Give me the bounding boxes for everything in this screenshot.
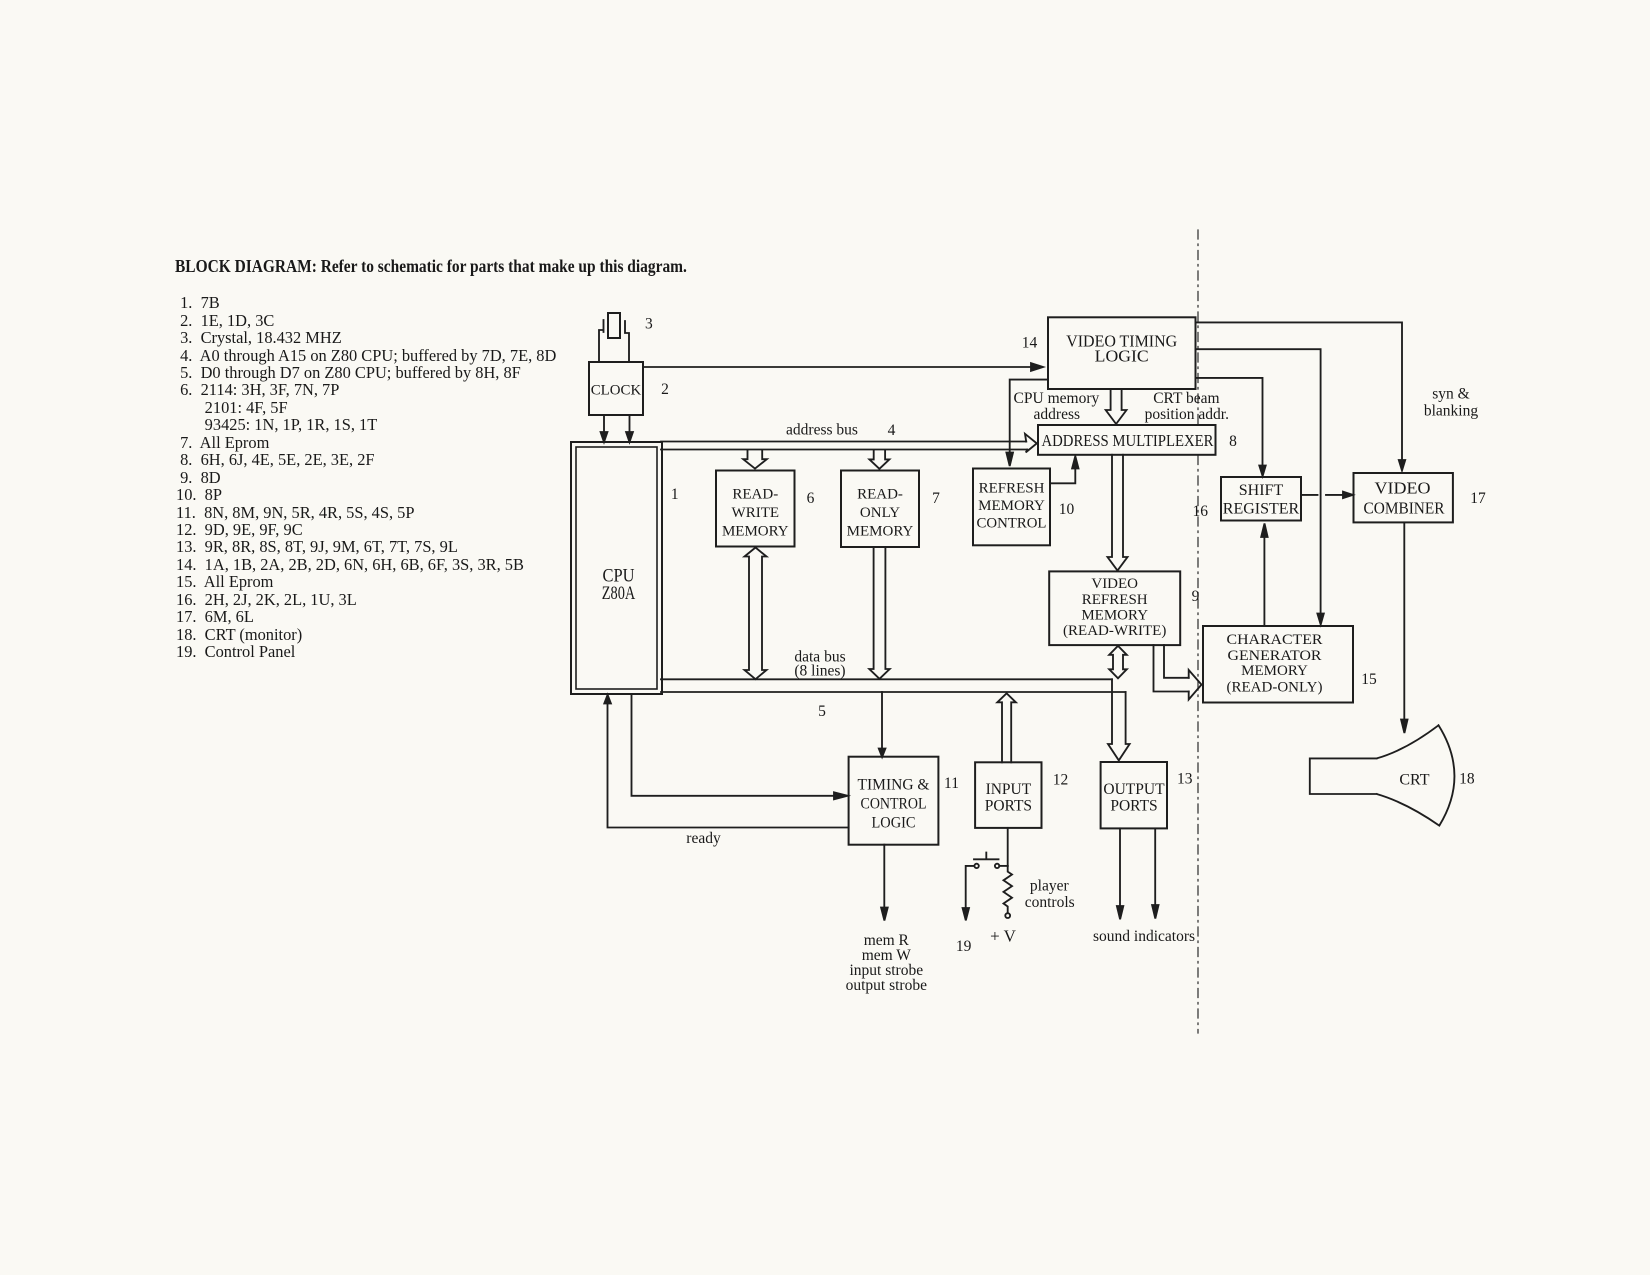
svg-text:19: 19 xyxy=(956,938,972,955)
wire: switch to control panel (19) xyxy=(963,866,975,921)
svg-text:LOGIC: LOGIC xyxy=(1095,347,1149,366)
svg-text:17: 17 xyxy=(1470,490,1486,507)
svg-text:VIDEO: VIDEO xyxy=(1375,479,1431,498)
wire: character generator memory up to shift register xyxy=(1261,524,1267,627)
svg-text:address: address xyxy=(1034,406,1081,423)
svg-text:CLOCK: CLOCK xyxy=(591,383,642,399)
svg-text:TIMING &: TIMING & xyxy=(858,777,930,794)
fold mark: vertical dash-dot line xyxy=(1197,230,1199,1033)
block VIDEO COMBINER (item 17) xyxy=(1354,473,1453,522)
svg-text:position addr.: position addr. xyxy=(1145,406,1229,423)
svg-text:ready: ready xyxy=(686,830,721,847)
wire: refresh memory control up to address multiplexer xyxy=(1050,456,1079,483)
svg-text:(READ-ONLY): (READ-ONLY) xyxy=(1227,679,1323,695)
bus: read-write memory to/from data bus (two-way open arrow) xyxy=(745,548,767,680)
svg-text:15: 15 xyxy=(1361,671,1377,688)
svg-text:10: 10 xyxy=(1059,501,1075,518)
svg-text:syn &: syn & xyxy=(1432,386,1469,403)
block REFRESH MEMORY CONTROL (item 10) xyxy=(973,469,1050,546)
svg-text:CONTROL: CONTROL xyxy=(977,516,1047,532)
svg-text:MEMORY: MEMORY xyxy=(847,523,914,539)
svg-text:MEMORY: MEMORY xyxy=(1081,608,1148,624)
svg-text:13: 13 xyxy=(1177,771,1193,788)
title xyxy=(175,256,687,277)
svg-text:7: 7 xyxy=(932,490,940,507)
svg-text:Z80A: Z80A xyxy=(602,583,636,604)
svg-text:REFRESH: REFRESH xyxy=(1082,592,1148,608)
block INPUT PORTS (item 12) xyxy=(975,762,1041,828)
block READ-WRITE MEMORY (item 6) xyxy=(716,471,795,547)
CRT monitor (item 18) xyxy=(1310,725,1455,825)
svg-text:LOGIC: LOGIC xyxy=(872,815,916,832)
block TIMING & CONTROL LOGIC (item 11) xyxy=(849,757,939,845)
bus branch: address bus down into read-write memory xyxy=(743,450,767,468)
svg-text:VIDEO: VIDEO xyxy=(1091,576,1138,592)
switch: player pushbutton (item 19) xyxy=(974,853,1008,869)
svg-text:controls: controls xyxy=(1025,894,1075,911)
bus: video refresh memory to/from data bus (two-way open arrow) xyxy=(1109,646,1127,679)
svg-text:9: 9 xyxy=(1192,588,1200,605)
wire: CPU memory address from video timing logic down to refresh memory control xyxy=(1006,380,1047,466)
svg-text:blanking: blanking xyxy=(1424,403,1478,420)
svg-text:REFRESH: REFRESH xyxy=(979,481,1045,497)
svg-text:ONLY: ONLY xyxy=(860,505,900,521)
wire: timing and control logic outputs (mem R, mem W, strobes) xyxy=(881,845,888,921)
svg-text:11: 11 xyxy=(944,775,959,792)
resistor: player controls pull-up to +V xyxy=(1004,866,1013,918)
svg-text:+ V: + V xyxy=(990,927,1017,946)
wire clock to cpu (left clock phase) xyxy=(601,415,608,442)
svg-text:CONTROL: CONTROL xyxy=(861,796,927,813)
bus: input ports up to data bus (open arrow) xyxy=(997,693,1016,762)
svg-text:CHARACTER: CHARACTER xyxy=(1227,632,1323,648)
wire clock to cpu (right clock phase) xyxy=(626,415,633,442)
svg-text:6: 6 xyxy=(807,490,815,507)
wire: video timing logic to character generator memory xyxy=(1196,349,1324,624)
block CHARACTER GENERATOR MEMORY (item 15) xyxy=(1203,626,1353,703)
svg-text:12: 12 xyxy=(1053,772,1069,789)
svg-text:ADDRESS MULTIPLEXER: ADDRESS MULTIPLEXER xyxy=(1042,431,1215,450)
wire: video combiner down to CRT xyxy=(1401,522,1407,733)
svg-text:MEMORY: MEMORY xyxy=(722,523,789,539)
bus branch: address bus down into read-only memory xyxy=(869,450,889,469)
block READ-ONLY MEMORY (item 7) xyxy=(841,471,919,548)
bus: video refresh memory to character generator memory (open arrow right) xyxy=(1154,645,1202,699)
bus: address multiplexer down to video refresh memory (open arrow) xyxy=(1108,455,1128,571)
svg-text:8: 8 xyxy=(1229,433,1237,450)
wire: output ports sound line 1 xyxy=(1117,828,1123,919)
svg-text:CPU memory: CPU memory xyxy=(1014,390,1100,407)
svg-text:GENERATOR: GENERATOR xyxy=(1228,648,1322,664)
block ADDRESS MULTIPLEXER (item 8) xyxy=(1038,425,1216,455)
wire: video timing logic to video combiner (syn and blanking) xyxy=(1196,322,1406,470)
svg-text:2: 2 xyxy=(661,381,669,398)
svg-text:address bus: address bus xyxy=(786,422,858,439)
crystal Y1 (item 3) xyxy=(599,313,629,362)
bus: address bus (item 4) from CPU to address multiplexer xyxy=(661,434,1037,453)
svg-text:CRT: CRT xyxy=(1399,772,1429,789)
svg-text:PORTS: PORTS xyxy=(985,798,1032,815)
svg-text:SHIFT: SHIFT xyxy=(1239,482,1284,499)
svg-text:18: 18 xyxy=(1459,771,1475,788)
svg-text:14: 14 xyxy=(1022,335,1038,352)
bus: read-only memory to data bus (down open arrow) xyxy=(869,548,889,679)
svg-text:MEMORY: MEMORY xyxy=(978,498,1045,514)
block CLOCK (item 2) xyxy=(589,362,643,415)
wire: shift register to video combiner xyxy=(1301,492,1353,498)
svg-text:MEMORY: MEMORY xyxy=(1241,663,1308,679)
svg-text:(8 lines): (8 lines) xyxy=(794,663,845,680)
svg-text:player: player xyxy=(1030,878,1070,895)
svg-text:WRITE: WRITE xyxy=(732,505,779,521)
wire: CPU down to timing and control logic xyxy=(632,694,848,799)
block CPU Z80A (item 1) xyxy=(571,442,662,694)
block VIDEO REFRESH MEMORY (item 9) xyxy=(1049,571,1180,645)
block VIDEO TIMING LOGIC (item 14) xyxy=(1048,317,1196,389)
wire: video timing logic to shift register xyxy=(1196,378,1266,476)
svg-text:REGISTER: REGISTER xyxy=(1223,500,1300,517)
parts list xyxy=(176,294,556,660)
svg-text:3: 3 xyxy=(645,316,653,333)
svg-text:sound indicators: sound indicators xyxy=(1093,928,1195,945)
svg-text:4: 4 xyxy=(888,422,896,439)
svg-text:OUTPUT: OUTPUT xyxy=(1103,781,1165,798)
block SHIFT REGISTER (item 16) xyxy=(1221,477,1301,521)
wire: input ports down to player controls xyxy=(1007,828,1009,866)
svg-text:READ-: READ- xyxy=(857,486,903,502)
svg-text:PORTS: PORTS xyxy=(1110,798,1157,815)
bus: data bus (item 5) from CPU to output ports xyxy=(661,679,1130,760)
svg-text:COMBINER: COMBINER xyxy=(1364,498,1445,517)
svg-text:5: 5 xyxy=(818,703,826,720)
svg-text:16: 16 xyxy=(1193,503,1209,520)
bus: video timing logic down to address multiplexer (open arrow) xyxy=(1106,390,1127,425)
svg-text:INPUT: INPUT xyxy=(986,781,1032,798)
wire: ready from timing and control logic to CPU xyxy=(604,695,848,828)
wire: data bus down to timing and control logic xyxy=(879,692,886,757)
svg-text:(READ-WRITE): (READ-WRITE) xyxy=(1063,623,1166,639)
wire: output ports sound line 2 xyxy=(1152,828,1158,918)
svg-text:CRT beam: CRT beam xyxy=(1153,390,1219,407)
block OUTPUT PORTS (item 13) xyxy=(1101,762,1167,828)
svg-text:READ-: READ- xyxy=(732,486,778,502)
svg-text:1: 1 xyxy=(671,486,679,503)
wire clock to video timing logic xyxy=(643,363,1043,371)
svg-text:output strobe: output strobe xyxy=(846,977,927,994)
